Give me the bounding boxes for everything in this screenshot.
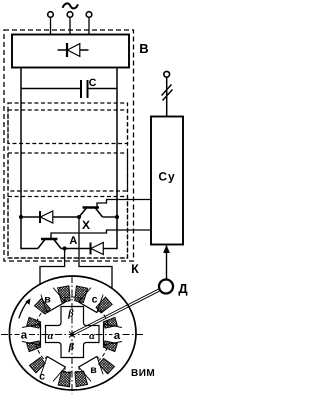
terminal 3 [86, 12, 92, 18]
svg-text:А: А [69, 235, 77, 247]
coil blob 136deg [35, 299, 51, 315]
coil blob 284deg [75, 371, 88, 387]
outer dashed converter box [4, 30, 134, 261]
axis dash-dot horizontal [1, 334, 145, 336]
coil blob 44deg [96, 297, 112, 313]
wire terminal2 stem [69, 18, 71, 36]
capacitor C [21, 80, 117, 98]
AC source tilde [63, 3, 79, 8]
node P junction [77, 215, 81, 219]
svg-text:В: В [139, 41, 148, 56]
svg-text:β: β [67, 309, 74, 320]
wire top row right [103, 216, 118, 218]
position sensor D [159, 280, 173, 294]
wire top row middle [53, 216, 79, 218]
label a right [113, 329, 123, 340]
stator pole a left (180deg) [22, 323, 41, 346]
label a left [20, 329, 30, 340]
svg-text:ВИМ: ВИМ [131, 368, 155, 379]
svg-text:α: α [48, 331, 54, 342]
wire terminal3 stem [88, 18, 90, 36]
terminal 2 [67, 12, 73, 18]
wire bottom row left [21, 248, 38, 250]
coil blob 104deg [58, 286, 71, 303]
stator pole c bottom-left (240deg) [41, 357, 65, 382]
wire phase lead from node A to motor [40, 250, 65, 304]
terminal 1 [48, 12, 54, 18]
commutator dashed box K [8, 103, 128, 258]
coil blob 164deg [27, 317, 41, 328]
svg-text:С: С [89, 77, 97, 89]
svg-text:Су: Су [158, 170, 175, 184]
switch bottom (transistor key) [38, 239, 61, 249]
stator bore dashed circle [35, 297, 110, 372]
svg-text:β: β [68, 342, 75, 353]
rotor cross [46, 307, 100, 358]
stator pole v bottom-right (300deg) [79, 357, 103, 382]
rotation arrow [19, 300, 28, 318]
node A junction [63, 246, 67, 250]
coil blob 344deg [103, 341, 117, 352]
wire bottom row right [103, 248, 117, 250]
shaft double line [73, 291, 161, 336]
junction right bus / top row [115, 215, 119, 219]
svg-text:в: в [90, 364, 97, 376]
junction left bus / top row [19, 215, 23, 219]
stator pole v top-left (120deg) [41, 288, 65, 313]
control unit CU box [151, 117, 183, 245]
arrowhead into CU [163, 245, 170, 254]
multi-wire slash marks [162, 85, 172, 96]
wire phase lead from node P to motor [79, 219, 112, 302]
svg-text:с: с [39, 371, 45, 383]
phase module box 3 [8, 197, 128, 259]
stator pole c top-right (60deg) [79, 288, 103, 313]
svg-text:Х: Х [82, 218, 90, 232]
wire gate top switch to CU [97, 200, 151, 207]
switch X top (transistor key) [79, 208, 103, 218]
wire bottom row middle [61, 248, 91, 250]
phase module box 2 [8, 153, 128, 191]
control unit terminal [164, 71, 170, 77]
coil blob 224deg [29, 358, 45, 374]
center mark [69, 332, 75, 338]
wire right DC bus [116, 68, 118, 250]
coil blob 76deg [75, 286, 88, 303]
svg-text:Д: Д [178, 281, 188, 296]
motor stator outer circle [9, 276, 136, 390]
wire left DC bus [20, 68, 22, 250]
diode VD2 bottom row [91, 243, 104, 255]
svg-text:в: в [44, 294, 51, 306]
svg-text:с: с [92, 294, 98, 306]
wire gate bottom switch to CU [51, 230, 151, 238]
stator pole a right (0deg) [104, 323, 123, 346]
svg-text:К: К [131, 262, 139, 276]
coil blob 256deg [58, 371, 70, 387]
wire sensor to CU [166, 247, 168, 279]
wire terminal1 stem [50, 18, 52, 36]
wire terminal to CU [166, 78, 168, 117]
diode VD1 top row [40, 211, 53, 223]
rectifier box B [12, 35, 129, 68]
wire top row left [21, 216, 40, 218]
diode VD0 inside rectifier [58, 43, 89, 57]
svg-text:а: а [114, 330, 121, 342]
axis dash-dot vertical [71, 276, 73, 394]
coil blob 316deg [99, 358, 115, 374]
svg-text:α: α [89, 331, 95, 342]
coil blob 196deg [27, 341, 41, 352]
phase module box 1 [8, 110, 128, 144]
svg-text:а: а [21, 330, 28, 342]
coil blob 16deg [103, 317, 117, 328]
